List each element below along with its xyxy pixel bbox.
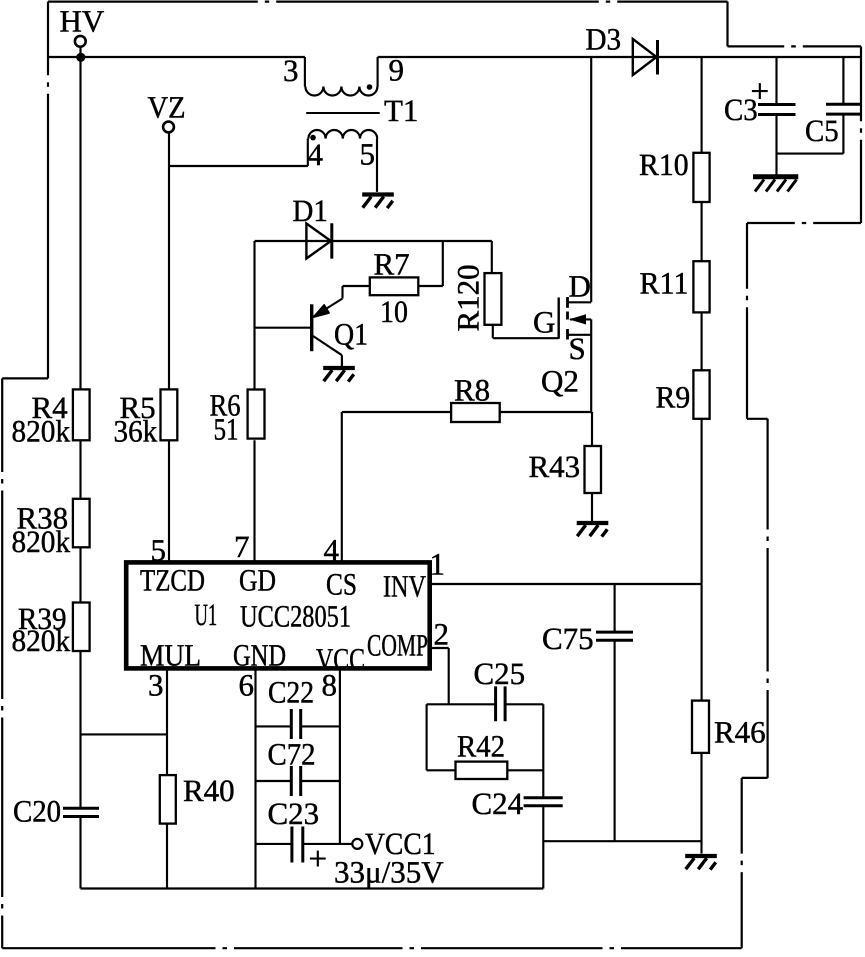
svg-text:C75: C75 xyxy=(542,621,594,656)
svg-text:2: 2 xyxy=(434,617,450,652)
svg-text:R9: R9 xyxy=(656,380,691,415)
svg-text:R46: R46 xyxy=(714,715,766,750)
svg-text:R11: R11 xyxy=(640,266,689,301)
svg-text:1: 1 xyxy=(430,547,446,582)
svg-text:6: 6 xyxy=(239,668,255,703)
svg-text:D1: D1 xyxy=(293,193,328,228)
svg-text:S: S xyxy=(569,331,586,366)
svg-text:HV: HV xyxy=(60,4,105,39)
svg-text:7: 7 xyxy=(234,529,250,564)
svg-text:4: 4 xyxy=(308,137,324,172)
svg-text:G: G xyxy=(533,305,555,340)
svg-text:T1: T1 xyxy=(384,93,418,128)
svg-text:C24: C24 xyxy=(472,786,524,821)
svg-text:R10: R10 xyxy=(639,147,689,182)
svg-text:4: 4 xyxy=(324,533,340,568)
svg-text:D3: D3 xyxy=(586,22,622,57)
svg-text:5: 5 xyxy=(360,137,376,172)
svg-text:R8: R8 xyxy=(454,373,490,408)
svg-text:C20: C20 xyxy=(13,794,61,829)
svg-text:R7: R7 xyxy=(374,247,410,282)
svg-text:COMP: COMP xyxy=(367,628,428,663)
svg-text:820k: 820k xyxy=(12,623,71,658)
svg-text:36k: 36k xyxy=(114,414,158,449)
svg-text:R42: R42 xyxy=(457,729,505,764)
svg-text:R120: R120 xyxy=(451,264,486,331)
svg-text:UCC28051: UCC28051 xyxy=(240,599,351,634)
svg-text:C25: C25 xyxy=(474,656,526,691)
svg-text:GD: GD xyxy=(239,563,276,598)
svg-text:+: + xyxy=(751,74,770,110)
svg-text:820k: 820k xyxy=(12,414,71,449)
svg-text:Q1: Q1 xyxy=(334,317,368,352)
svg-text:C22: C22 xyxy=(268,675,314,710)
svg-text:TZCD: TZCD xyxy=(140,563,205,598)
svg-text:D: D xyxy=(569,269,591,304)
svg-text:51: 51 xyxy=(214,412,239,447)
svg-text:33μ/35V: 33μ/35V xyxy=(334,855,444,890)
svg-text:VZ: VZ xyxy=(148,90,186,125)
svg-text:C5: C5 xyxy=(805,113,839,148)
svg-text:8: 8 xyxy=(322,668,338,703)
svg-text:820k: 820k xyxy=(12,524,71,559)
svg-text:CS: CS xyxy=(326,567,357,602)
svg-text:R43: R43 xyxy=(529,449,581,484)
svg-text:3: 3 xyxy=(283,53,299,88)
svg-text:U1: U1 xyxy=(195,597,218,632)
svg-text:+: + xyxy=(309,842,328,878)
svg-text:R40: R40 xyxy=(183,773,235,808)
svg-text:Q2: Q2 xyxy=(541,364,579,399)
svg-text:C23: C23 xyxy=(268,796,320,831)
svg-text:9: 9 xyxy=(389,53,405,88)
svg-text:10: 10 xyxy=(380,294,408,329)
svg-text:C72: C72 xyxy=(268,737,316,772)
svg-text:3: 3 xyxy=(148,668,164,703)
svg-text:INV: INV xyxy=(383,569,426,604)
